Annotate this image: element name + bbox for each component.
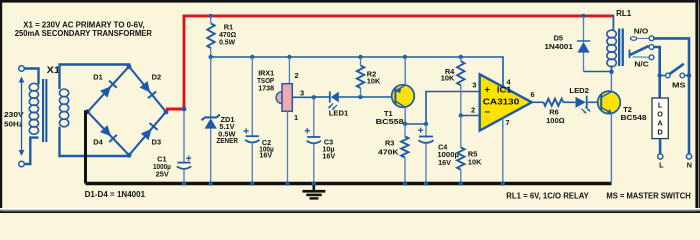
node bridge top — [127, 64, 132, 69]
node bus R2 — [358, 55, 362, 59]
svg-text:10K: 10K — [468, 157, 482, 166]
node C1 top — [182, 107, 187, 112]
svg-text:1N4001: 1N4001 — [544, 42, 573, 51]
node R4 R5 junction — [459, 113, 463, 117]
transformer X1 primary winding — [29, 83, 38, 134]
label D1-D4 note — [85, 190, 146, 199]
node bridge left — [85, 109, 90, 114]
wire T1 collector to C4 — [405, 123, 426, 125]
wire IC1 pin 7 to ground — [502, 118, 504, 184]
node C4 ground — [424, 181, 428, 185]
svg-text:0.5W: 0.5W — [219, 38, 235, 47]
wire node to T1 base — [361, 96, 395, 98]
switch MS — [662, 64, 689, 90]
node MS right — [687, 73, 692, 78]
svg-text:ZENER: ZENER — [216, 136, 238, 145]
label RL1 note — [506, 191, 589, 200]
wire positive rail (red) — [166, 15, 614, 111]
relay contact N/C — [633, 55, 654, 69]
node C3 ground — [312, 181, 316, 185]
svg-text:16V: 16V — [322, 151, 335, 160]
svg-text:D1: D1 — [93, 73, 102, 82]
svg-text:X1: X1 — [47, 65, 61, 75]
wire C4 node to pin 3 — [426, 92, 480, 125]
capacitor C2 — [244, 57, 274, 184]
svg-text:10K: 10K — [367, 76, 381, 85]
resistor R5 — [457, 116, 482, 184]
capacitor C3 — [305, 97, 336, 183]
node T1 collector — [403, 122, 407, 126]
node ZD1 ground — [209, 181, 213, 185]
svg-text:RL1 = 6V, 1C/O RELAY: RL1 = 6V, 1C/O RELAY — [506, 191, 589, 200]
node C2 ground — [250, 181, 254, 185]
node MS left — [657, 73, 662, 78]
terminal L — [658, 154, 664, 170]
svg-text:RL1: RL1 — [616, 9, 632, 18]
note transformer spec — [15, 20, 153, 39]
wire N/O to N terminal — [654, 38, 689, 153]
svg-text:BC558: BC558 — [376, 117, 404, 126]
wire mains top to primary — [24, 69, 38, 84]
svg-text:D4: D4 — [93, 137, 103, 146]
transformer X1 core — [42, 79, 47, 142]
svg-text:O: O — [657, 109, 663, 118]
svg-text:100Ω: 100Ω — [546, 116, 565, 125]
svg-text:BC548: BC548 — [621, 113, 647, 122]
diode D5 — [544, 16, 590, 72]
node D5 rail — [581, 14, 585, 18]
terminal mains bottom — [19, 161, 25, 167]
wire LED2 to T2 base — [588, 101, 601, 103]
wire R6 to LED2 — [563, 101, 575, 103]
svg-text:16V: 16V — [438, 158, 451, 167]
svg-text:7: 7 — [505, 118, 509, 127]
svg-text:1738: 1738 — [258, 84, 274, 93]
node bus R4 — [459, 55, 463, 59]
svg-text:MS: MS — [672, 81, 686, 90]
node R1 top — [209, 14, 213, 18]
label X1 — [47, 65, 61, 75]
ground — [303, 185, 326, 200]
node C4 top — [424, 122, 428, 126]
resistor R2 — [357, 57, 381, 97]
node T2 collector D5 RL1 — [609, 70, 613, 74]
capacitor C4 — [418, 124, 459, 184]
transistor T1 BC558 — [376, 85, 415, 126]
wire IRX1 out to LED1 — [314, 96, 330, 98]
wire 5V bus — [211, 57, 503, 87]
svg-text:3: 3 — [472, 81, 476, 90]
svg-text:LED1: LED1 — [329, 109, 349, 118]
load box — [652, 98, 668, 139]
IR receiver IRX1 TSOP1738 — [257, 57, 314, 184]
resistor R4 — [441, 57, 465, 116]
wire D5 to node — [584, 71, 612, 73]
LED1 — [328, 91, 348, 117]
relay RL1 coil — [607, 15, 616, 72]
wire T1 emitter to bus — [404, 57, 406, 85]
bridge rectifier outline — [88, 67, 166, 156]
svg-text:25V: 25V — [156, 170, 169, 179]
relay pole contact — [630, 45, 654, 58]
diode D4 — [93, 125, 117, 146]
svg-text:N/C: N/C — [634, 60, 649, 69]
resistor R3 — [378, 124, 408, 184]
wire T2 collector up — [610, 72, 612, 92]
node C1 ground — [182, 181, 186, 185]
node bus T1 — [403, 55, 407, 59]
svg-text:N/O: N/O — [634, 27, 649, 36]
node bus R1 — [209, 55, 213, 59]
relay RL1 core — [618, 29, 624, 67]
transistor T2 BC548 — [598, 91, 647, 122]
transformer X1 secondary winding — [60, 89, 69, 127]
ground bus — [86, 182, 612, 185]
diode D3 — [141, 123, 161, 146]
node LED1 R2 — [358, 95, 362, 99]
svg-text:3: 3 — [300, 89, 304, 98]
wire secondary top to bridge — [60, 65, 130, 90]
wire LED1 to node — [339, 96, 361, 98]
svg-text:50Hz: 50Hz — [4, 120, 23, 129]
svg-text:D3: D3 — [152, 137, 161, 146]
node bus C2 — [250, 55, 254, 59]
label MS note — [606, 191, 691, 200]
svg-text:10K: 10K — [441, 74, 455, 83]
node bus IRX1 — [287, 55, 291, 59]
node R5 ground — [459, 181, 463, 185]
wire mains bottom to primary — [24, 138, 38, 164]
svg-text:6: 6 — [530, 90, 534, 99]
svg-text:L: L — [658, 100, 663, 109]
wire junction to pin 2 — [461, 115, 480, 117]
svg-text:2: 2 — [294, 71, 298, 80]
wire T1 collector down — [404, 107, 406, 124]
node R3 ground — [403, 181, 407, 185]
label 230V 50Hz — [4, 110, 24, 128]
node bridge right — [164, 109, 169, 114]
svg-text:D1-D4 = 1N4001: D1-D4 = 1N4001 — [85, 190, 146, 199]
op-amp IC1 CA3130 — [471, 74, 535, 130]
svg-text:LED2: LED2 — [569, 86, 589, 95]
LED2 — [569, 86, 590, 114]
diode D2 — [140, 73, 162, 99]
wire T2 emitter to ground — [610, 113, 612, 183]
svg-text:D: D — [657, 127, 662, 136]
svg-text:A: A — [657, 118, 662, 127]
capacitor C1 — [153, 111, 191, 184]
svg-text:+: + — [485, 85, 491, 96]
node IRX1 ground — [285, 181, 289, 185]
svg-text:1: 1 — [294, 113, 298, 122]
svg-text:MS = MASTER SWITCH: MS = MASTER SWITCH — [606, 191, 691, 200]
svg-text:L: L — [659, 161, 664, 170]
wire load to L terminal — [659, 139, 662, 154]
wire secondary bottom to bridge — [60, 127, 130, 156]
diode D1 — [93, 73, 117, 98]
resistor R6 — [544, 99, 565, 125]
wire IC1 out — [532, 101, 544, 103]
zener ZD1 — [202, 57, 239, 184]
svg-text:R3: R3 — [385, 138, 394, 147]
svg-text:16V: 16V — [259, 150, 272, 159]
node IRX1 out — [312, 95, 316, 99]
relay contact N/O — [630, 27, 654, 41]
terminal N — [686, 154, 692, 170]
label RL1 — [616, 9, 632, 18]
node IC1 pin7 ground — [501, 181, 505, 185]
svg-text:470K: 470K — [378, 147, 399, 156]
terminal mains top — [19, 66, 25, 72]
wire bridge negative (black) — [86, 112, 88, 184]
resistor R1 — [207, 16, 236, 57]
node bridge bottom — [127, 153, 132, 158]
svg-text:2: 2 — [471, 105, 475, 114]
svg-text:−: − — [485, 107, 491, 118]
wire pole to load — [654, 47, 660, 98]
svg-text:250mA SECONDARY TRANSFORMER: 250mA SECONDARY TRANSFORMER — [15, 28, 153, 38]
svg-text:N: N — [687, 161, 692, 170]
svg-text:D2: D2 — [152, 73, 161, 82]
arrow 230V supply — [19, 77, 25, 157]
svg-text:CA3130: CA3130 — [483, 97, 520, 107]
